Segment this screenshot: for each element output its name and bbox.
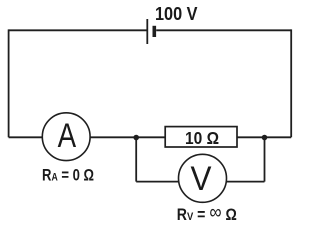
wire top-right segment: [156, 29, 291, 31]
svg-text:V: V: [191, 160, 212, 198]
svg-text:A: A: [58, 117, 77, 155]
wire resistor to right junction: [237, 136, 265, 138]
resistor R1 body: [165, 127, 237, 147]
node junction dot left: [133, 135, 139, 141]
wire top-left segment: [9, 29, 148, 31]
svg-text:RA = 0 Ω: RA = 0 Ω: [42, 166, 94, 184]
wire voltmeter branch right horizontal: [226, 181, 264, 183]
voltmeter V2 circle: [179, 154, 227, 202]
battery V1 long plate: [146, 19, 148, 44]
wire right vertical: [290, 29, 292, 137]
wire voltmeter branch right vertical: [264, 137, 266, 181]
wire ammeter to left junction: [90, 136, 136, 138]
wire voltmeter branch left horizontal: [136, 181, 179, 183]
wire voltmeter branch left vertical: [135, 137, 137, 181]
svg-text:RV = ∞ Ω: RV = ∞ Ω: [177, 202, 237, 225]
node junction dot right: [262, 135, 268, 141]
wire left vertical: [8, 29, 10, 137]
svg-text:100 V: 100 V: [155, 3, 198, 24]
wire right junction to right vertical: [265, 136, 292, 138]
wire left junction to resistor: [136, 136, 165, 138]
svg-text:10 Ω: 10 Ω: [185, 128, 219, 148]
wire left to ammeter: [9, 136, 43, 138]
battery V1 short thick plate: [153, 26, 157, 37]
ammeter A1 circle: [42, 113, 90, 161]
